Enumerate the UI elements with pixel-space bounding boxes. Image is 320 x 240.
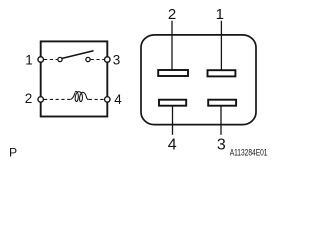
terminal slot T3 (bottom right) xyxy=(208,100,236,106)
svg-text:1: 1 xyxy=(216,6,224,23)
connector housing outline xyxy=(141,35,256,125)
svg-text:2: 2 xyxy=(25,91,33,106)
svg-text:A113284E01: A113284E01 xyxy=(230,147,268,157)
pin 3 terminal circle xyxy=(105,57,111,63)
lead from label 1 to slot T1 xyxy=(220,21,222,70)
svg-text:2: 2 xyxy=(168,6,176,23)
switch blade xyxy=(62,51,93,59)
svg-text:3: 3 xyxy=(217,136,226,153)
terminal slot T2 (top left) xyxy=(158,70,188,76)
wire contact to pin3 (dashed) xyxy=(91,59,104,61)
relay body box xyxy=(41,41,108,116)
svg-text:4: 4 xyxy=(114,92,122,107)
coil L1 xyxy=(70,91,88,101)
wire pin2 to coil (dashed) xyxy=(44,98,70,100)
svg-text:3: 3 xyxy=(113,52,121,67)
lead from slot T3 to label 3 xyxy=(220,106,222,135)
terminal slot T4 (bottom left) xyxy=(159,100,186,106)
svg-text:P: P xyxy=(9,145,17,159)
lead from label 2 to slot T2 xyxy=(171,21,173,70)
svg-text:1: 1 xyxy=(25,52,33,67)
wire coil to pin4 (dashed) xyxy=(89,98,104,100)
pin 1 terminal circle xyxy=(38,57,44,63)
wire pin1 to contact (dashed) xyxy=(44,59,57,61)
svg-text:4: 4 xyxy=(168,136,177,153)
pin 4 terminal circle xyxy=(105,97,111,103)
switch contact right xyxy=(86,57,90,61)
lead from slot T4 to label 4 xyxy=(172,106,174,135)
terminal slot T1 (top right) xyxy=(208,70,236,76)
switch contact left xyxy=(58,57,62,61)
pin 2 terminal circle xyxy=(38,97,44,103)
